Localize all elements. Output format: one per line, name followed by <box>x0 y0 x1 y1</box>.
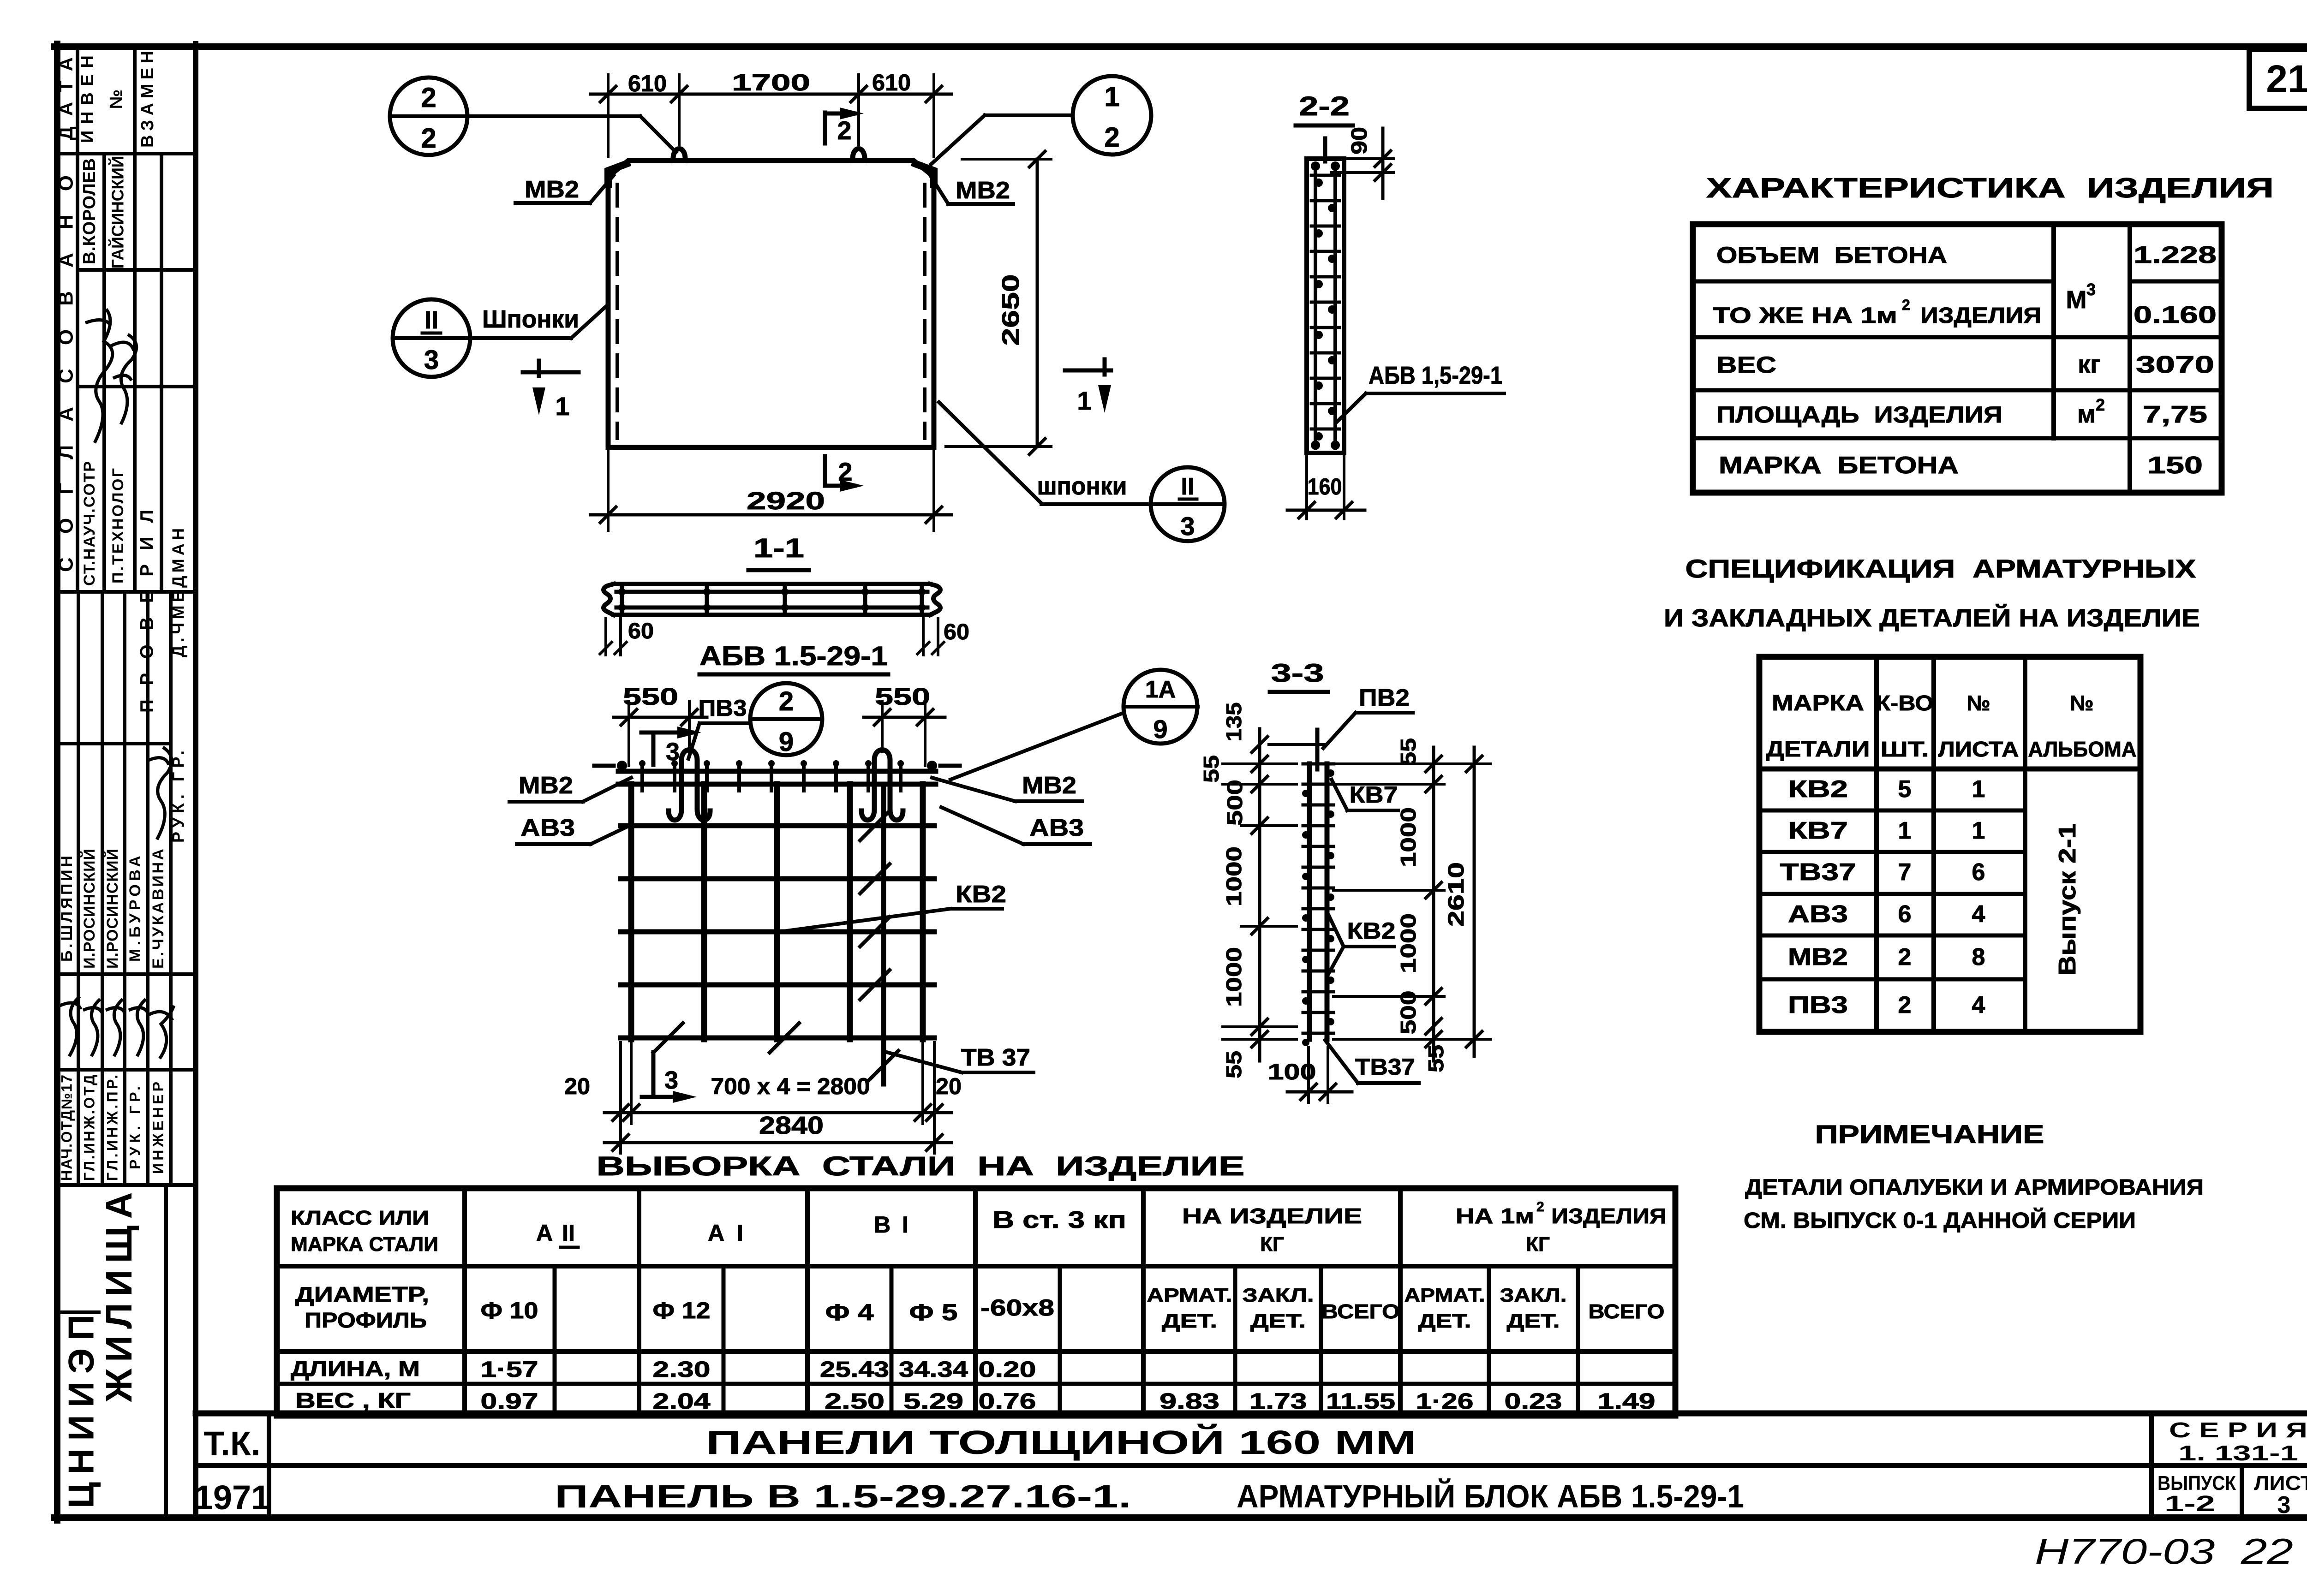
svg-text:М: М <box>2066 286 2087 314</box>
svg-text:В: В <box>874 1212 891 1238</box>
svg-text:АРМАТ.: АРМАТ. <box>1147 1284 1232 1306</box>
svg-text:ВСЕГО: ВСЕГО <box>1321 1300 1400 1323</box>
svg-text:А: А <box>536 1220 553 1246</box>
svg-text:60: 60 <box>944 620 969 644</box>
svg-text:ПРОФИЛЬ: ПРОФИЛЬ <box>305 1308 427 1332</box>
svg-text:1.49: 1.49 <box>1598 1389 1656 1414</box>
svg-text:6: 6 <box>1898 901 1912 928</box>
svg-text:1-2: 1-2 <box>2164 1492 2215 1516</box>
svg-text:ТВ37: ТВ37 <box>1355 1054 1415 1080</box>
svg-text:2: 2 <box>1536 1199 1544 1215</box>
svg-text:3: 3 <box>424 345 439 375</box>
svg-text:3070: 3070 <box>2136 351 2214 378</box>
svg-text:20: 20 <box>564 1073 590 1099</box>
svg-text:ДЕТ.: ДЕТ. <box>1250 1310 1306 1332</box>
svg-text:ИЗДЕЛИЯ: ИЗДЕЛИЯ <box>1920 304 2041 328</box>
svg-text:НА ИЗДЕЛИЕ: НА ИЗДЕЛИЕ <box>1182 1204 1362 1228</box>
svg-text:МАРКА: МАРКА <box>1772 691 1864 715</box>
svg-text:1.73: 1.73 <box>1249 1389 1307 1414</box>
svg-text:КВ2: КВ2 <box>1788 776 1848 803</box>
svg-text:ГАЙСИНСКИЙ: ГАЙСИНСКИЙ <box>108 156 127 269</box>
svg-text:1. 131-1: 1. 131-1 <box>2178 1441 2298 1465</box>
svg-text:2: 2 <box>2096 395 2105 414</box>
svg-text:3: 3 <box>666 738 680 766</box>
svg-text:1: 1 <box>1972 776 1985 803</box>
svg-text:СМ. ВЫПУСК 0-1 ДАННОЙ СЕРИИ: СМ. ВЫПУСК 0-1 ДАННОЙ СЕРИИ <box>1744 1208 2136 1233</box>
svg-text:Н770-03 22: Н770-03 22 <box>2035 1531 2293 1572</box>
svg-text:20: 20 <box>936 1073 962 1099</box>
svg-text:I: I <box>737 1220 743 1246</box>
svg-text:90: 90 <box>1347 127 1372 155</box>
svg-text:ДИАМЕТР,: ДИАМЕТР, <box>295 1282 429 1306</box>
svg-text:СПЕЦИФИКАЦИЯ АРМАТУРНЫХ: СПЕЦИФИКАЦИЯ АРМАТУРНЫХ <box>1685 554 2196 583</box>
svg-text:ВСЕГО: ВСЕГО <box>1589 1300 1665 1323</box>
svg-text:ДЛИНА, М: ДЛИНА, М <box>291 1357 420 1381</box>
svg-text:Ф 5: Ф 5 <box>909 1299 958 1325</box>
svg-text:1А: 1А <box>1145 676 1176 703</box>
svg-text:60: 60 <box>628 619 654 643</box>
svg-text:550: 550 <box>623 684 678 710</box>
svg-text:II: II <box>562 1220 575 1246</box>
svg-text:610: 610 <box>628 71 667 96</box>
svg-text:ПВ3: ПВ3 <box>699 695 747 721</box>
svg-text:0.20: 0.20 <box>979 1358 1036 1382</box>
svg-text:550: 550 <box>875 684 930 710</box>
svg-text:МВ2: МВ2 <box>1022 772 1076 799</box>
svg-text:АВ3: АВ3 <box>1029 815 1084 841</box>
svg-text:5: 5 <box>1898 776 1912 803</box>
svg-text:ТВ37: ТВ37 <box>1780 859 1856 886</box>
svg-text:К-ВО: К-ВО <box>1876 691 1934 715</box>
svg-text:ВЕС , КГ: ВЕС , КГ <box>295 1388 411 1412</box>
svg-text:ЛИСТА: ЛИСТА <box>1938 737 2019 761</box>
svg-text:9: 9 <box>1153 715 1167 744</box>
svg-text:2: 2 <box>837 116 851 145</box>
svg-text:3: 3 <box>2277 1492 2291 1519</box>
svg-text:НА 1м: НА 1м <box>1456 1204 1534 1228</box>
svg-text:-60x8: -60x8 <box>980 1295 1054 1321</box>
svg-text:ДЕТАЛИ ОПАЛУБКИ И АРМИРОВАНИЯ: ДЕТАЛИ ОПАЛУБКИ И АРМИРОВАНИЯ <box>1745 1175 2204 1200</box>
svg-text:ТО ЖЕ НА 1м: ТО ЖЕ НА 1м <box>1713 304 1897 328</box>
svg-text:ГЛ.ИНЖ.ОТД: ГЛ.ИНЖ.ОТД <box>81 1075 97 1181</box>
svg-text:АБВ 1.5-29-1: АБВ 1.5-29-1 <box>699 641 888 671</box>
svg-text:№: № <box>1966 691 1990 715</box>
svg-text:НАЧ.ОТД№17: НАЧ.ОТД№17 <box>58 1075 75 1181</box>
svg-text:ТВ 37: ТВ 37 <box>961 1044 1030 1071</box>
svg-text:КЛАСС ИЛИ: КЛАСС ИЛИ <box>291 1207 429 1229</box>
svg-text:МАРКА СТАЛИ: МАРКА СТАЛИ <box>291 1233 438 1256</box>
svg-text:Выпуск 2-1: Выпуск 2-1 <box>2054 823 2081 976</box>
svg-text:I: I <box>902 1212 908 1238</box>
svg-text:П Р О В Е Р И Л: П Р О В Е Р И Л <box>137 510 157 713</box>
svg-text:ВЫБОРКА СТАЛИ НА ИЗДЕЛИЕ: ВЫБОРКА СТАЛИ НА ИЗДЕЛИЕ <box>597 1151 1245 1181</box>
svg-text:Ф 12: Ф 12 <box>653 1298 711 1323</box>
svg-text:Т.К.: Т.К. <box>203 1424 260 1463</box>
svg-text:КВ7: КВ7 <box>1350 782 1398 808</box>
svg-text:№: № <box>107 89 126 109</box>
svg-text:АЛЬБОМА: АЛЬБОМА <box>2028 737 2137 761</box>
svg-text:ШТ.: ШТ. <box>1881 737 1929 761</box>
svg-text:4: 4 <box>1972 901 1985 928</box>
svg-text:2: 2 <box>1104 122 1119 153</box>
svg-text:2: 2 <box>779 686 794 716</box>
svg-text:Шпонки: Шпонки <box>482 305 579 333</box>
svg-text:В.КОРОЛЕВ: В.КОРОЛЕВ <box>80 158 99 264</box>
svg-text:№: № <box>2070 691 2093 715</box>
svg-text:КГ: КГ <box>1260 1233 1284 1256</box>
svg-text:II: II <box>424 306 438 334</box>
svg-text:ЗАКЛ.: ЗАКЛ. <box>1500 1284 1567 1306</box>
svg-text:55: 55 <box>1424 1045 1448 1072</box>
svg-text:3: 3 <box>664 1066 678 1094</box>
svg-text:ДЕТ.: ДЕТ. <box>1507 1310 1560 1332</box>
svg-text:2: 2 <box>838 457 852 486</box>
svg-text:СТ.НАУЧ.СОТР: СТ.НАУЧ.СОТР <box>81 461 98 586</box>
svg-text:9.83: 9.83 <box>1159 1389 1219 1414</box>
svg-text:1000: 1000 <box>1222 846 1246 906</box>
svg-text:АРМАТУРНЫЙ БЛОК АБВ 1.5-29-1: АРМАТУРНЫЙ БЛОК АБВ 1.5-29-1 <box>1237 1478 1744 1514</box>
svg-text:КВ2: КВ2 <box>1347 918 1396 944</box>
svg-text:500: 500 <box>1396 991 1420 1035</box>
svg-text:ПЛОЩАДЬ ИЗДЕЛИЯ: ПЛОЩАДЬ ИЗДЕЛИЯ <box>1716 402 2002 428</box>
svg-text:ДЕТ.: ДЕТ. <box>1418 1310 1471 1332</box>
svg-text:8: 8 <box>1972 944 1985 971</box>
svg-text:150: 150 <box>2147 452 2203 479</box>
svg-text:ОБЪЕМ БЕТОНА: ОБЪЕМ БЕТОНА <box>1716 242 1947 268</box>
svg-text:АВ3: АВ3 <box>1788 901 1848 928</box>
svg-text:1700: 1700 <box>732 70 810 95</box>
svg-text:ПРИМЕЧАНИЕ: ПРИМЕЧАНИЕ <box>1815 1120 2044 1149</box>
svg-text:2650: 2650 <box>998 274 1024 346</box>
svg-text:Ф 4: Ф 4 <box>825 1299 874 1325</box>
svg-text:И ЗАКЛАДНЫХ ДЕТАЛЕЙ НА ИЗДЕЛИЕ: И ЗАКЛАДНЫХ ДЕТАЛЕЙ НА ИЗДЕЛИЕ <box>1664 604 2200 632</box>
svg-text:2920: 2920 <box>747 487 825 515</box>
svg-text:1000: 1000 <box>1222 947 1246 1007</box>
svg-text:0.76: 0.76 <box>979 1389 1036 1414</box>
svg-text:2.04: 2.04 <box>653 1389 711 1414</box>
svg-text:КВ7: КВ7 <box>1788 817 1848 844</box>
svg-text:ЛИСТ: ЛИСТ <box>2254 1472 2307 1495</box>
svg-text:Ф 10: Ф 10 <box>481 1298 538 1323</box>
svg-text:6: 6 <box>1972 859 1985 886</box>
svg-text:1-1: 1-1 <box>753 533 804 563</box>
svg-text:МВ2: МВ2 <box>525 176 579 203</box>
svg-text:2: 2 <box>1898 992 1912 1018</box>
svg-text:2.30: 2.30 <box>653 1358 711 1382</box>
svg-text:160: 160 <box>1308 474 1342 500</box>
svg-text:21: 21 <box>2266 57 2307 101</box>
svg-text:1·57: 1·57 <box>481 1358 538 1382</box>
svg-text:1: 1 <box>1972 817 1985 844</box>
svg-text:ПВ3: ПВ3 <box>1788 992 1848 1018</box>
svg-text:500: 500 <box>1223 780 1247 826</box>
svg-text:ИЗДЕЛИЯ: ИЗДЕЛИЯ <box>1551 1204 1667 1228</box>
svg-text:2: 2 <box>1902 297 1910 313</box>
svg-text:А: А <box>708 1220 724 1246</box>
svg-text:3-3: 3-3 <box>1271 658 1324 687</box>
svg-text:1: 1 <box>1077 386 1091 415</box>
svg-text:25.43: 25.43 <box>820 1358 889 1382</box>
svg-text:Б.ШЛЯПИН: Б.ШЛЯПИН <box>58 856 76 962</box>
svg-text:МВ2: МВ2 <box>956 177 1010 204</box>
svg-text:ИНЖЕНЕР: ИНЖЕНЕР <box>149 1082 166 1174</box>
svg-text:4: 4 <box>1972 992 1985 1018</box>
svg-text:шпонки: шпонки <box>1037 472 1127 500</box>
svg-text:И.РОСИНСКИЙ: И.РОСИНСКИЙ <box>80 849 98 969</box>
svg-text:100: 100 <box>1268 1060 1316 1084</box>
svg-text:АРМАТ.: АРМАТ. <box>1405 1284 1485 1306</box>
svg-text:1971: 1971 <box>194 1478 270 1517</box>
svg-text:9: 9 <box>779 727 794 757</box>
svg-text:7: 7 <box>1898 859 1912 886</box>
svg-text:ХАРАКТЕРИСТИКА ИЗДЕЛИЯ: ХАРАКТЕРИСТИКА ИЗДЕЛИЯ <box>1706 173 2274 203</box>
svg-text:МВ2: МВ2 <box>519 772 573 799</box>
svg-text:2610: 2610 <box>1444 862 1469 927</box>
svg-text:Д.ЧМЕДМАН: Д.ЧМЕДМАН <box>169 528 188 657</box>
svg-text:АВ3: АВ3 <box>520 815 575 841</box>
svg-text:ВЕС: ВЕС <box>1716 352 1776 378</box>
svg-text:7,75: 7,75 <box>2143 401 2207 428</box>
svg-text:34.34: 34.34 <box>899 1358 968 1382</box>
svg-text:2-2: 2-2 <box>1299 91 1350 121</box>
svg-text:0.23: 0.23 <box>1505 1389 1562 1414</box>
svg-text:55: 55 <box>1199 755 1223 783</box>
svg-text:1: 1 <box>555 392 569 421</box>
svg-text:11.55: 11.55 <box>1326 1389 1395 1414</box>
svg-text:ЗАКЛ.: ЗАКЛ. <box>1243 1284 1314 1306</box>
svg-text:2: 2 <box>1898 944 1912 971</box>
svg-text:1000: 1000 <box>1396 807 1420 867</box>
svg-text:1: 1 <box>1104 81 1119 112</box>
svg-text:КГ: КГ <box>1526 1233 1550 1256</box>
svg-text:ПАНЕЛЬ В 1.5-29.27.16-1.: ПАНЕЛЬ В 1.5-29.27.16-1. <box>555 1478 1131 1514</box>
svg-text:МАРКА БЕТОНА: МАРКА БЕТОНА <box>1719 452 1959 479</box>
svg-text:2: 2 <box>421 82 436 113</box>
svg-text:м: м <box>2077 400 2096 428</box>
svg-text:АБВ 1,5-29-1: АБВ 1,5-29-1 <box>1369 362 1502 389</box>
svg-text:1000: 1000 <box>1396 913 1420 973</box>
svg-text:2840: 2840 <box>759 1112 824 1139</box>
svg-text:55: 55 <box>1222 1051 1246 1078</box>
svg-text:1.228: 1.228 <box>2134 242 2217 268</box>
svg-text:кг: кг <box>2078 351 2101 378</box>
svg-text:ПАНЕЛИ ТОЛЩИНОЙ 160 ММ: ПАНЕЛИ ТОЛЩИНОЙ 160 ММ <box>706 1423 1416 1461</box>
svg-text:1: 1 <box>1898 817 1912 844</box>
svg-text:В ст. 3 кп: В ст. 3 кп <box>992 1207 1126 1233</box>
svg-text:0.97: 0.97 <box>481 1389 538 1414</box>
svg-text:135: 135 <box>1222 703 1246 742</box>
svg-text:2: 2 <box>421 123 436 154</box>
svg-text:ПВ2: ПВ2 <box>1359 685 1410 711</box>
svg-text:И.РОСИНСКИЙ: И.РОСИНСКИЙ <box>103 849 121 969</box>
svg-text:700 x 4 = 2800: 700 x 4 = 2800 <box>711 1073 870 1099</box>
svg-text:3: 3 <box>2086 280 2096 299</box>
svg-text:610: 610 <box>872 70 911 95</box>
svg-text:55: 55 <box>1396 738 1420 766</box>
svg-text:ДЕТ.: ДЕТ. <box>1162 1310 1217 1332</box>
svg-text:КВ2: КВ2 <box>956 881 1006 908</box>
svg-text:МВ2: МВ2 <box>1788 944 1848 971</box>
svg-text:II: II <box>1181 473 1195 500</box>
svg-text:5.29: 5.29 <box>903 1389 963 1414</box>
svg-text:С Е Р И Я: С Е Р И Я <box>2169 1418 2307 1442</box>
svg-text:ДЕТАЛИ: ДЕТАЛИ <box>1766 737 1870 762</box>
svg-text:2.50: 2.50 <box>825 1389 885 1414</box>
svg-text:0.160: 0.160 <box>2134 302 2217 328</box>
svg-text:1·26: 1·26 <box>1416 1389 1474 1414</box>
svg-text:3: 3 <box>1180 512 1195 541</box>
svg-text:ВЫПУСК: ВЫПУСК <box>2158 1472 2236 1495</box>
